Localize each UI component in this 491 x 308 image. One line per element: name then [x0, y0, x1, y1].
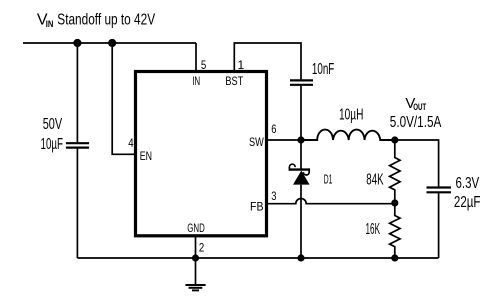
svg-text:FB: FB — [250, 200, 264, 214]
svg-text:5.0V/1.5A: 5.0V/1.5A — [390, 114, 442, 131]
svg-text:10µH: 10µH — [339, 106, 363, 123]
svg-text:IN: IN — [46, 19, 54, 30]
svg-text:OUT: OUT — [413, 102, 426, 112]
wire SW pin 6 — [265, 139, 301, 141]
junction VOUT node — [391, 136, 398, 143]
svg-text:84K: 84K — [366, 171, 383, 188]
wire input cap branch upper — [76, 43, 78, 142]
svg-text:10nF: 10nF — [312, 61, 335, 78]
wire input cap branch lower — [76, 149, 78, 258]
op-amp U1 regulator box — [136, 72, 267, 236]
svg-text:Standoff up to 42V: Standoff up to 42V — [57, 12, 155, 29]
svg-text:4: 4 — [128, 136, 134, 150]
svg-text:1: 1 — [238, 58, 245, 72]
junction R2 bottom node — [391, 254, 398, 261]
diode D1 schottky — [289, 164, 309, 184]
junction EN node — [108, 39, 116, 47]
svg-text:10µF: 10µF — [41, 136, 64, 153]
svg-text:3: 3 — [271, 189, 276, 203]
wire output cap lower — [438, 193, 440, 258]
inductor L1 10uH — [301, 130, 395, 140]
junction FB divider node — [391, 199, 398, 206]
junction GND rail node — [192, 254, 199, 261]
resistor R2 16K — [390, 203, 400, 258]
junction input cap node — [73, 39, 81, 47]
svg-text:D1: D1 — [324, 173, 333, 187]
label VOUT — [405, 95, 426, 112]
svg-text:16K: 16K — [366, 221, 381, 238]
label VIN standoff — [37, 12, 155, 31]
wire VIN top rail — [23, 42, 196, 44]
wire EN branch — [112, 43, 137, 154]
wire BST pin 1 to 10nF — [234, 43, 301, 79]
svg-text:2: 2 — [199, 241, 205, 255]
wire 10nF to SW node — [300, 86, 302, 140]
wire bottom ground rail — [77, 257, 438, 259]
svg-text:SW: SW — [249, 135, 264, 149]
capacitor C2 10nF plates — [290, 80, 313, 84]
capacitor CIN 50V 10uF plates — [66, 143, 89, 147]
wire IN pin 5 drop — [195, 43, 197, 73]
junction SW node — [297, 136, 304, 143]
svg-text:IN: IN — [192, 74, 200, 88]
svg-text:6.3V: 6.3V — [456, 175, 480, 192]
capacitor COUT 22uF plates — [427, 188, 452, 193]
svg-text:EN: EN — [140, 149, 152, 163]
svg-text:22µF: 22µF — [454, 194, 481, 211]
resistor R1 84K — [390, 140, 400, 203]
junction diode anode node — [297, 254, 304, 261]
svg-text:BST: BST — [225, 74, 243, 88]
wire VOUT to output cap — [395, 140, 439, 186]
wire FB pin 3 with hop over diode — [265, 198, 395, 203]
wire diode branch — [300, 140, 302, 258]
svg-text:GND: GND — [187, 221, 205, 235]
svg-text:5: 5 — [201, 58, 207, 72]
svg-text:6: 6 — [271, 122, 276, 136]
wire GND pin 2 drop — [195, 234, 197, 258]
svg-text:50V: 50V — [43, 116, 63, 133]
ground symbol — [185, 258, 205, 290]
